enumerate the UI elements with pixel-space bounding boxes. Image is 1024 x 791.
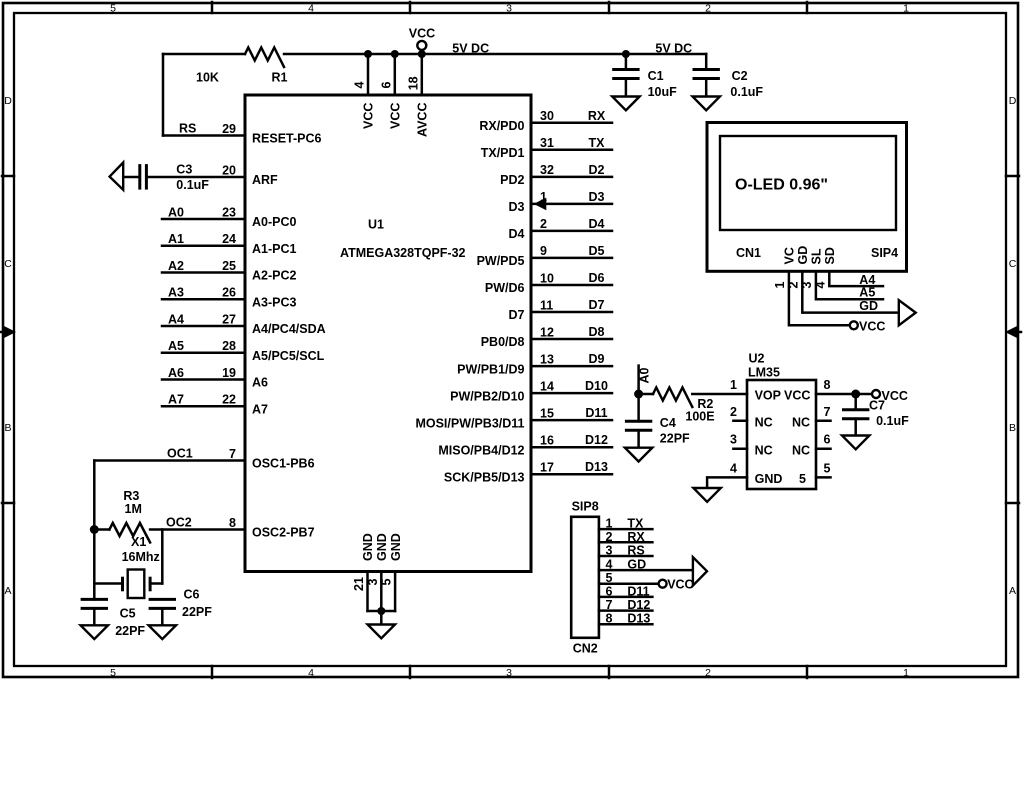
wire net A4 to U1 pin 27 — [162, 325, 245, 328]
wire U2 pin 7 stub — [816, 420, 831, 423]
ground C1 — [612, 97, 639, 111]
svg-text:VOP: VOP — [755, 389, 781, 403]
svg-text:D11: D11 — [585, 406, 607, 420]
svg-text:VCC: VCC — [362, 103, 376, 129]
border inner frame — [14, 13, 1006, 666]
svg-text:5: 5 — [110, 667, 116, 679]
svg-text:6: 6 — [824, 433, 831, 447]
wire U1 pin 31 net TX — [531, 149, 612, 152]
wire net A6 to U1 pin 19 — [162, 378, 245, 381]
svg-text:2: 2 — [540, 217, 547, 231]
transistor U2 LM35 body — [747, 380, 816, 489]
capacitor C2 — [693, 70, 720, 79]
svg-text:D: D — [4, 95, 12, 107]
wire U1 pin 15 net D11 — [531, 419, 612, 422]
wire C3 to U1 pin 20 — [146, 176, 245, 179]
wire U2 pin 2 stub — [733, 420, 747, 423]
svg-text:1: 1 — [903, 667, 909, 679]
svg-text:VCC: VCC — [859, 319, 885, 333]
svg-text:O-LED 0.96": O-LED 0.96" — [735, 177, 828, 194]
junction rail C1 — [622, 50, 630, 58]
svg-text:A4: A4 — [168, 312, 184, 326]
svg-text:A0: A0 — [168, 205, 184, 219]
svg-text:18: 18 — [406, 76, 420, 90]
svg-text:1: 1 — [730, 378, 737, 392]
svg-text:16: 16 — [540, 434, 554, 448]
wire U2 pin 6 stub — [816, 447, 831, 450]
wire CN2 pin 4 GD to off-page arrow — [599, 569, 693, 572]
svg-text:24: 24 — [222, 232, 236, 246]
wire U1 pin 13 net D9 — [531, 365, 612, 368]
wire U1 pin 17 net D13 — [531, 473, 612, 476]
svg-text:RS: RS — [179, 121, 196, 135]
wire U2 pin 3 stub — [733, 447, 747, 450]
svg-text:D12: D12 — [585, 433, 608, 447]
svg-text:NC: NC — [755, 443, 773, 457]
border alignment arrow right — [1005, 326, 1021, 338]
svg-text:CN2: CN2 — [573, 642, 598, 656]
wire left leg to crystal — [93, 530, 96, 600]
junction rail pin18 — [418, 50, 426, 58]
wire U1 GND pin 21 — [366, 572, 369, 612]
svg-text:A2-PC2: A2-PC2 — [252, 269, 297, 283]
svg-text:GD: GD — [859, 299, 878, 313]
svg-text:1: 1 — [903, 3, 909, 15]
wire CN2 pin 6 net D11 — [599, 596, 653, 599]
D3 input arrowhead on U1 pin 1 — [534, 198, 547, 211]
svg-text:A3-PC3: A3-PC3 — [252, 296, 297, 310]
svg-text:2: 2 — [730, 405, 737, 419]
svg-text:32: 32 — [540, 163, 554, 177]
svg-text:29: 29 — [222, 122, 236, 136]
svg-text:22PF: 22PF — [115, 624, 145, 638]
svg-text:17: 17 — [540, 461, 554, 475]
svg-text:5V DC: 5V DC — [452, 42, 489, 56]
svg-text:D2: D2 — [589, 163, 605, 177]
svg-text:19: 19 — [222, 366, 236, 380]
svg-text:2: 2 — [705, 3, 711, 15]
svg-text:R1: R1 — [272, 71, 288, 85]
svg-text:D9: D9 — [589, 352, 605, 366]
svg-text:D4: D4 — [509, 227, 525, 241]
svg-text:22: 22 — [222, 393, 236, 407]
wire OC2 to U1 pin 8 — [150, 528, 245, 531]
svg-text:9: 9 — [540, 244, 547, 258]
svg-text:C: C — [1009, 258, 1017, 270]
svg-text:SCK/PB5/D13: SCK/PB5/D13 — [444, 470, 525, 484]
svg-text:3: 3 — [506, 3, 512, 15]
svg-text:VCC: VCC — [389, 103, 403, 129]
svg-text:TX: TX — [589, 136, 606, 150]
svg-text:16Mhz: 16Mhz — [122, 550, 160, 564]
wire CN1 pin 2 to GD — [802, 271, 899, 312]
svg-text:PW/PB1/D9: PW/PB1/D9 — [457, 362, 524, 376]
wire U1 pin 32 net D2 — [531, 176, 612, 179]
svg-text:D3: D3 — [509, 200, 525, 214]
junction C7 — [851, 390, 860, 399]
svg-text:2: 2 — [705, 667, 711, 679]
border row labels left — [4, 95, 12, 597]
resistor R1 — [245, 48, 284, 68]
svg-text:ARF: ARF — [252, 173, 278, 187]
svg-text:OC2: OC2 — [166, 516, 192, 530]
svg-text:PD2: PD2 — [500, 173, 524, 187]
svg-text:20: 20 — [222, 163, 236, 177]
svg-text:0.1uF: 0.1uF — [730, 85, 763, 99]
svg-text:R3: R3 — [123, 489, 139, 503]
svg-text:A: A — [1009, 585, 1016, 597]
svg-text:X1: X1 — [131, 535, 146, 549]
capacitor C1 — [612, 70, 639, 79]
svg-text:C1: C1 — [648, 69, 664, 83]
wire C4 bottom — [637, 430, 640, 447]
svg-text:D11: D11 — [627, 584, 649, 598]
svg-text:5: 5 — [606, 571, 613, 585]
svg-text:3: 3 — [506, 667, 512, 679]
svg-text:A6: A6 — [252, 376, 268, 390]
wire U1 pin 30 net RX — [531, 122, 612, 125]
wire CN2 pin 1 net TX — [599, 528, 653, 531]
wire net A5 to U1 pin 28 — [162, 352, 245, 355]
svg-text:6: 6 — [379, 82, 393, 89]
capacitor C7 — [842, 410, 869, 419]
wire net A1 to U1 pin 24 — [162, 245, 245, 248]
svg-text:1: 1 — [606, 517, 613, 531]
off-page arrow CN2 GD — [693, 557, 707, 586]
border column labels bottom — [110, 667, 909, 679]
svg-text:1M: 1M — [125, 502, 142, 516]
wire U1 pin 2 net D4 — [531, 230, 612, 233]
svg-text:4: 4 — [308, 667, 314, 679]
svg-text:D7: D7 — [509, 308, 525, 322]
svg-text:SL: SL — [810, 248, 824, 264]
svg-text:A0-PC0: A0-PC0 — [252, 215, 297, 229]
svg-text:25: 25 — [222, 259, 236, 273]
svg-text:OSC1-PB6: OSC1-PB6 — [252, 457, 315, 471]
capacitor C4 — [625, 421, 652, 430]
svg-text:22PF: 22PF — [660, 432, 690, 446]
wire crystal branch vertical — [161, 530, 164, 584]
wire 5V rail — [284, 53, 706, 56]
svg-text:RX: RX — [588, 109, 606, 123]
OLED module CN1 body — [707, 123, 907, 272]
svg-text:C3: C3 — [176, 162, 192, 176]
svg-text:GND: GND — [755, 472, 783, 486]
border column ticks bottom — [212, 666, 807, 678]
svg-text:VCC: VCC — [409, 27, 435, 41]
svg-text:PW/D6: PW/D6 — [485, 281, 525, 295]
svg-text:4: 4 — [353, 82, 367, 89]
svg-text:U1: U1 — [368, 218, 384, 232]
svg-text:TX: TX — [627, 517, 644, 531]
ground C4 — [625, 448, 652, 462]
svg-text:A4/PC4/SDA: A4/PC4/SDA — [252, 322, 326, 336]
border alignment arrow left — [0, 326, 16, 338]
junction rail pin4 — [364, 50, 372, 58]
svg-text:7: 7 — [229, 447, 236, 461]
wire U1 pin 1 net D3 — [531, 203, 612, 206]
wire U1 GND pin 3 — [380, 572, 383, 612]
svg-text:D7: D7 — [589, 298, 605, 312]
svg-text:0.1uF: 0.1uF — [876, 414, 909, 428]
crystal X1 — [94, 570, 162, 599]
svg-text:D8: D8 — [589, 325, 605, 339]
svg-text:27: 27 — [222, 312, 236, 326]
svg-text:8: 8 — [229, 516, 236, 530]
junction A0/R2/C4 — [634, 390, 643, 399]
op-amp U1 ATMEGA328 IC body — [245, 95, 531, 572]
svg-text:10K: 10K — [196, 71, 219, 85]
capacitor C6 — [149, 599, 176, 608]
off-page arrow GD — [899, 300, 916, 325]
svg-text:PW/PD5: PW/PD5 — [477, 254, 525, 268]
svg-text:8: 8 — [606, 612, 613, 626]
svg-text:C: C — [4, 258, 12, 270]
junction rail pin6 — [391, 50, 399, 58]
wire R2 to U2 pin 1 — [692, 393, 747, 396]
svg-text:PW/PB2/D10: PW/PB2/D10 — [450, 389, 524, 403]
svg-text:NC: NC — [792, 443, 810, 457]
power symbol VCC (CN2 pin5) — [659, 577, 694, 591]
svg-text:A3: A3 — [168, 286, 184, 300]
svg-text:C6: C6 — [184, 588, 200, 602]
svg-text:A5: A5 — [859, 286, 875, 300]
svg-text:28: 28 — [222, 339, 236, 353]
svg-text:4: 4 — [606, 558, 613, 572]
svg-text:A6: A6 — [168, 366, 184, 380]
power symbol VCC top — [409, 27, 435, 50]
wire U1 VCC pin 4 — [367, 54, 370, 95]
wire RESET net vertical — [162, 54, 165, 136]
wire R3 left stub — [94, 528, 109, 531]
wire U2 pin 8 to VCC — [816, 393, 872, 396]
power symbol VCC (OLED) — [850, 319, 886, 333]
svg-text:1: 1 — [773, 282, 787, 289]
svg-text:D5: D5 — [589, 244, 605, 258]
svg-text:26: 26 — [222, 286, 236, 300]
svg-text:8: 8 — [824, 378, 831, 392]
svg-text:3: 3 — [730, 433, 737, 447]
svg-text:LM35: LM35 — [748, 365, 780, 379]
svg-text:D13: D13 — [627, 612, 650, 626]
svg-text:B: B — [1009, 422, 1016, 434]
wire OC1 to U1 pin 7 — [94, 461, 245, 530]
svg-text:D: D — [1009, 95, 1017, 107]
ground C7 — [842, 436, 869, 450]
svg-text:A0: A0 — [638, 367, 652, 383]
svg-text:VC: VC — [783, 247, 797, 264]
svg-text:100E: 100E — [685, 410, 714, 424]
wire U1 pin 10 net D6 — [531, 284, 612, 287]
svg-text:NC: NC — [792, 415, 810, 429]
wire U1 pin 9 net D5 — [531, 257, 612, 260]
svg-text:5: 5 — [799, 472, 806, 486]
wire U1 pin 14 net D10 — [531, 392, 612, 395]
ground C2 — [693, 97, 720, 111]
svg-text:SD: SD — [823, 247, 837, 264]
OLED screen inner box — [720, 136, 896, 230]
svg-text:C2: C2 — [732, 69, 748, 83]
connector CN2 SIP8 body — [571, 517, 599, 638]
svg-text:5: 5 — [380, 579, 394, 586]
node A0 stub — [637, 366, 640, 394]
svg-text:6: 6 — [606, 584, 613, 598]
svg-text:A2: A2 — [168, 259, 184, 273]
svg-text:7: 7 — [606, 598, 613, 612]
svg-text:MISO/PB4/D12: MISO/PB4/D12 — [438, 443, 524, 457]
svg-text:D10: D10 — [585, 379, 608, 393]
svg-text:15: 15 — [540, 406, 554, 420]
svg-text:0.1uF: 0.1uF — [176, 178, 209, 192]
wire CN2 pin 7 net D12 — [599, 609, 653, 612]
svg-text:31: 31 — [540, 136, 554, 150]
wire CN1 pin 1 to VCC — [789, 271, 851, 325]
svg-text:GND: GND — [375, 533, 389, 561]
wire net A0 to U1 pin 23 — [162, 218, 245, 221]
svg-text:RESET-PC6: RESET-PC6 — [252, 132, 322, 146]
ground C6 — [149, 625, 176, 639]
svg-text:VCC: VCC — [667, 577, 693, 591]
svg-text:D4: D4 — [589, 217, 605, 231]
svg-text:VCC: VCC — [882, 389, 908, 403]
svg-text:VCC: VCC — [784, 389, 810, 403]
junction R3 left — [90, 525, 99, 534]
svg-text:RS: RS — [627, 544, 644, 558]
svg-text:GD: GD — [796, 246, 810, 265]
svg-text:ATMEGA328TQPF-32: ATMEGA328TQPF-32 — [340, 246, 466, 260]
svg-text:PB0/D8: PB0/D8 — [481, 335, 525, 349]
wire GND bus join — [368, 611, 396, 625]
border row ticks right — [1006, 176, 1019, 503]
svg-text:23: 23 — [222, 205, 236, 219]
svg-text:RX: RX — [627, 530, 645, 544]
svg-text:7: 7 — [824, 405, 831, 419]
wire CN2 pin 5 to VCC — [599, 582, 659, 585]
svg-text:D3: D3 — [589, 190, 605, 204]
svg-text:SIP8: SIP8 — [572, 500, 599, 514]
svg-text:5: 5 — [110, 3, 116, 15]
off-page arrow ARF — [110, 163, 124, 190]
svg-text:U2: U2 — [749, 352, 765, 366]
svg-text:13: 13 — [540, 352, 554, 366]
svg-text:GND: GND — [389, 533, 403, 561]
svg-text:C5: C5 — [120, 607, 136, 621]
wire C7 bottom — [854, 419, 857, 436]
svg-text:RX/PD0: RX/PD0 — [479, 119, 524, 133]
svg-text:CN1: CN1 — [736, 246, 761, 260]
wire U1 AVCC pin 18 — [421, 50, 424, 95]
junction GND pins — [377, 607, 385, 615]
wire CN2 pin 8 net D13 — [599, 623, 653, 626]
svg-text:A5/PC5/SCL: A5/PC5/SCL — [252, 349, 325, 363]
svg-text:4: 4 — [730, 461, 737, 475]
svg-text:2: 2 — [606, 530, 613, 544]
svg-text:OSC2-PB7: OSC2-PB7 — [252, 526, 315, 540]
svg-text:3: 3 — [606, 544, 613, 558]
svg-text:21: 21 — [352, 577, 366, 591]
capacitor C3 — [140, 164, 147, 190]
svg-text:3: 3 — [366, 579, 380, 586]
svg-text:C7: C7 — [869, 398, 885, 412]
svg-text:B: B — [4, 422, 11, 434]
power symbol VCC (U2) — [872, 389, 908, 403]
svg-text:4: 4 — [308, 3, 314, 15]
ground U2 pin4 — [693, 488, 720, 502]
border column ticks top — [212, 2, 807, 13]
svg-text:11: 11 — [540, 298, 553, 312]
wire U2 pin 4 to ground — [707, 477, 747, 488]
wire C1 top — [625, 54, 628, 70]
wire rail left of R1 — [163, 53, 245, 56]
wire A0 to R2 — [639, 393, 653, 396]
wire C5 bottom — [93, 608, 96, 625]
svg-text:22PF: 22PF — [182, 605, 212, 619]
border row ticks left — [2, 176, 14, 503]
border row labels right — [1009, 95, 1017, 597]
wire CN2 pin 3 net RS — [599, 555, 653, 558]
svg-text:MOSI/PW/PB3/D11: MOSI/PW/PB3/D11 — [415, 416, 524, 430]
wire U1 pin 16 net D12 — [531, 446, 612, 449]
wire C2 top — [705, 54, 708, 70]
svg-text:C4: C4 — [660, 416, 676, 430]
wire C6 bottom — [161, 608, 164, 625]
svg-text:A7: A7 — [252, 403, 268, 417]
svg-text:D6: D6 — [589, 271, 605, 285]
svg-text:AVCC: AVCC — [416, 103, 430, 138]
wire CN1 pin 4 to A4 — [829, 271, 883, 286]
capacitor C5 — [81, 599, 108, 608]
ground U1 — [368, 625, 395, 639]
resistor R2 — [653, 388, 692, 408]
svg-text:A1: A1 — [168, 232, 184, 246]
wire CN1 pin 3 to A5 — [816, 271, 883, 299]
svg-text:30: 30 — [540, 109, 554, 123]
svg-text:D12: D12 — [627, 598, 650, 612]
wire U1 pin 12 net D8 — [531, 338, 612, 341]
wire C7 top — [854, 394, 857, 410]
wire C2 bottom — [705, 79, 708, 97]
svg-text:A7: A7 — [168, 393, 184, 407]
wire U1 VCC pin 6 — [394, 54, 397, 95]
wire CN2 pin 2 net RX — [599, 541, 653, 544]
wire arrow to C3 — [123, 176, 138, 179]
svg-text:5: 5 — [824, 461, 831, 475]
wire RS to U1 pin 29 — [163, 134, 245, 137]
svg-text:GD: GD — [627, 558, 646, 572]
svg-text:5V DC: 5V DC — [655, 42, 692, 56]
wire net A3 to U1 pin 26 — [162, 298, 245, 301]
svg-text:14: 14 — [540, 379, 554, 393]
wire C4 top — [637, 394, 640, 421]
wire U1 pin 11 net D7 — [531, 311, 612, 314]
wire net A2 to U1 pin 25 — [162, 271, 245, 274]
wire U2 pin 5 stub — [816, 476, 831, 479]
svg-text:A5: A5 — [168, 339, 184, 353]
wire C1 bottom — [625, 79, 628, 97]
svg-text:A: A — [4, 585, 11, 597]
ground C5 — [81, 625, 108, 639]
border column labels top — [110, 3, 909, 15]
wire U1 GND pin 5 — [394, 572, 397, 612]
svg-text:A1-PC1: A1-PC1 — [252, 242, 297, 256]
svg-text:SIP4: SIP4 — [871, 246, 898, 260]
svg-text:OC1: OC1 — [167, 447, 193, 461]
wire net A7 to U1 pin 22 — [162, 405, 245, 408]
svg-text:NC: NC — [755, 415, 773, 429]
svg-text:GND: GND — [361, 533, 375, 561]
resistor R3 — [109, 523, 150, 543]
svg-text:12: 12 — [540, 325, 554, 339]
